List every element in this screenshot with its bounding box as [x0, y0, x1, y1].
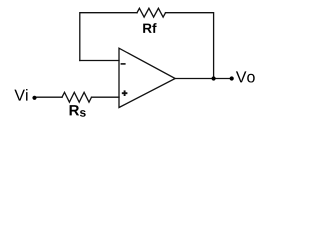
wire top-left segment (feedback top rail, left of Rf)	[80, 13, 137, 61]
op-amp plus pin symbol	[122, 90, 128, 96]
wire non-inverting input (Rs to op-amp plus)	[92, 96, 120, 98]
junction node (feedback meets output)	[212, 76, 216, 80]
node Vi terminal dot	[32, 96, 36, 100]
op-amp U1 triangle	[119, 48, 175, 107]
label Rs	[70, 105, 86, 117]
label Vo	[236, 71, 255, 82]
wire inverting input (to op-amp minus)	[80, 60, 119, 62]
resistor Rf	[137, 8, 166, 17]
wire Vi to Rs	[35, 96, 63, 98]
node Vo terminal dot	[230, 76, 234, 80]
resistor Rs	[62, 92, 92, 102]
label Rf	[143, 23, 156, 33]
wire top-right segment (Rf to right vertical)	[166, 13, 214, 79]
wire output (apex to Vo)	[175, 78, 231, 80]
label Vi	[14, 89, 27, 101]
op-amp minus pin symbol	[121, 63, 126, 65]
